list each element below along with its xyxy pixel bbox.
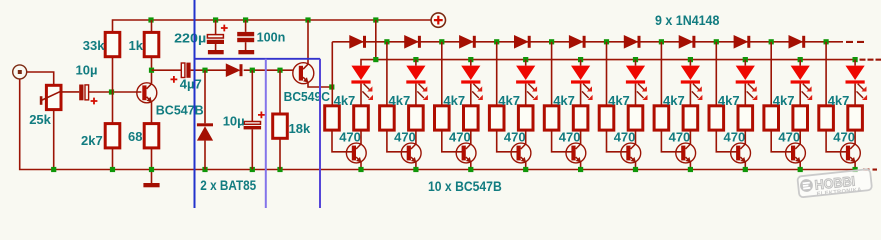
resistor R5 18k — [273, 70, 288, 169]
ground junction x=252.3 — [250, 167, 255, 172]
junction led bus cell 6 — [633, 57, 638, 62]
resistor 470 cell 6 — [628, 106, 643, 130]
wire 470 to collector cell 6 — [635, 130, 637, 144]
transistor cell 8 BC547B — [731, 143, 751, 163]
wire LED to 470 cell 5 — [580, 84, 582, 106]
diode D9 1N4148 — [679, 36, 692, 48]
svg-text:4k7: 4k7 — [498, 93, 520, 108]
svg-text:470: 470 — [724, 129, 746, 144]
wire 470 to collector cell 5 — [580, 130, 582, 144]
wire supply to led bus — [375, 20, 377, 60]
svg-text:4k7: 4k7 — [828, 93, 850, 108]
resistor 4k7 cell 9 — [764, 106, 779, 130]
wire led bus down cell 8 — [744, 60, 746, 66]
svg-text:25k: 25k — [29, 112, 51, 127]
wire led bus down cell 2 — [415, 60, 417, 66]
selection line C — [319, 59, 321, 208]
svg-text:4k7: 4k7 — [443, 93, 465, 108]
wire emitter to ground cell 9 — [799, 162, 801, 170]
junction diode bus node 2 — [384, 39, 389, 44]
wire led bus down cell 10 — [854, 60, 856, 66]
node base Q1 junction — [109, 89, 114, 94]
plus sign C5 — [258, 112, 265, 119]
potentiometer P1 25k — [40, 85, 62, 109]
wire 4k7 to base cell 1 — [332, 130, 354, 152]
ground junction x=205 — [202, 167, 207, 172]
svg-text:1k: 1k — [129, 38, 144, 53]
transistor Q2 BC549C — [293, 63, 314, 84]
wire node 6 down to 4k7 — [606, 42, 608, 106]
ground junction x=280 — [277, 167, 282, 172]
resistor R3 2k7 — [105, 124, 120, 148]
junction led bus cell 3 — [468, 57, 473, 62]
diode bus dashes — [846, 41, 853, 43]
transistor cell 5 BC547B — [566, 143, 586, 163]
plus sign C2 — [221, 25, 228, 32]
wire led bus down cell 4 — [525, 60, 527, 66]
wire LED to 470 cell 1 — [360, 84, 362, 106]
watermark logo — [797, 169, 872, 200]
ground junction x=151.5 — [149, 167, 154, 172]
svg-text:2 x BAT85: 2 x BAT85 — [200, 177, 256, 193]
wire 4k7 to base cell 7 — [661, 130, 683, 152]
LED cell 5 — [571, 66, 593, 100]
svg-text:470: 470 — [669, 129, 691, 144]
wire 1k to collector node — [151, 58, 153, 84]
svg-text:4k7: 4k7 — [389, 93, 411, 108]
wire pot bottom to ground rail — [53, 110, 55, 170]
battery plus terminal — [431, 13, 445, 27]
transistor cell 2 BC547B — [401, 143, 421, 163]
junction ground cell 6 — [633, 167, 638, 172]
ground symbol GND1 — [143, 170, 159, 188]
resistor 4k7 cell 10 — [819, 106, 834, 130]
ground rail — [54, 169, 855, 171]
svg-text:10 x BC547B: 10 x BC547B — [428, 178, 502, 194]
capacitor C3 100n — [237, 17, 254, 50]
LED cell 6 — [626, 66, 648, 100]
junction ground cell 4 — [523, 167, 528, 172]
wire emitter to ground cell 8 — [744, 162, 746, 170]
junction ground cell 3 — [468, 167, 473, 172]
resistor 4k7 cell 6 — [599, 106, 614, 130]
junction collector node — [149, 68, 154, 73]
resistor 470 cell 2 — [409, 106, 424, 130]
junction emitter node — [329, 84, 334, 89]
wire LED to 470 cell 9 — [799, 84, 801, 106]
wire Q1 emitter to 68 — [151, 102, 153, 124]
svg-text:10µ: 10µ — [76, 63, 98, 78]
wire emitter to ground cell 7 — [689, 162, 691, 170]
junction ground cell 8 — [743, 167, 748, 172]
diode D8 1N4148 — [624, 36, 637, 48]
wire led bus down cell 3 — [470, 60, 472, 66]
diode D1 BAT85 shunt — [197, 70, 213, 169]
ground junction x=53.7 — [51, 167, 56, 172]
wire node 9 down to 4k7 — [770, 42, 772, 106]
svg-text:220µ: 220µ — [174, 31, 206, 45]
svg-text:4k7: 4k7 — [334, 93, 356, 108]
resistor 470 cell 1 — [354, 106, 369, 130]
wire emitter to ground cell 3 — [470, 162, 472, 170]
wire 470 to collector cell 3 — [470, 130, 472, 144]
resistor 470 cell 4 — [518, 106, 533, 130]
diode D2 BAT85 series — [226, 64, 293, 76]
wire led bus down cell 5 — [580, 60, 582, 66]
wire 470 to collector cell 10 — [854, 130, 856, 144]
wire 470 to collector cell 7 — [689, 130, 691, 144]
svg-text:470: 470 — [833, 129, 855, 144]
svg-text:4k7: 4k7 — [608, 93, 630, 108]
junction ground cell 9 — [798, 167, 803, 172]
svg-text:470: 470 — [778, 129, 800, 144]
LED cell 2 — [406, 66, 428, 100]
capacitor C2 220u — [207, 17, 224, 50]
svg-text:470: 470 — [339, 129, 361, 144]
wire 4k7 to base cell 5 — [552, 130, 574, 152]
wire led bus down cell 9 — [799, 60, 801, 66]
resistor 4k7 cell 2 — [380, 106, 395, 130]
junction diode bus node 8 — [714, 39, 719, 44]
LED cell 1 — [351, 66, 373, 100]
diode D6 1N4148 — [515, 36, 528, 48]
wire emitter to ground cell 10 — [854, 162, 856, 170]
junction ground cell 5 — [578, 167, 583, 172]
wire LED to 470 cell 4 — [525, 84, 527, 106]
junction led bus cell 10 — [853, 57, 858, 62]
svg-text:18k: 18k — [289, 121, 311, 136]
resistor 470 cell 8 — [738, 106, 753, 130]
wire emitter to ground cell 6 — [635, 162, 637, 170]
resistor 470 cell 5 — [573, 106, 588, 130]
wire 33k bottom to 2k7 top — [112, 58, 114, 124]
transistor Q1 BC547B — [137, 83, 157, 103]
transistor cell 7 BC547B — [676, 143, 696, 163]
LED cell 10 — [846, 66, 868, 100]
diode D5 1N4148 — [460, 36, 473, 48]
junction diode bus node 6 — [604, 39, 609, 44]
diode D3 1N4148 — [350, 36, 363, 48]
LED cell 7 — [681, 66, 703, 100]
led bus dashes — [860, 59, 866, 61]
svg-text:470: 470 — [449, 129, 471, 144]
resistor 470 cell 3 — [464, 106, 479, 130]
wire 4k7 to base cell 3 — [442, 130, 464, 152]
svg-text:470: 470 — [559, 129, 581, 144]
wire emitter to ground cell 1 — [360, 162, 362, 170]
wire 4k7 to base cell 10 — [826, 130, 848, 152]
wire pot wiper to C1 — [62, 91, 80, 93]
junction led bus cell 2 — [413, 57, 418, 62]
wire node 4 down to 4k7 — [496, 42, 498, 106]
transistor cell 6 BC547B — [621, 143, 641, 163]
wire led bus down cell 6 — [635, 60, 637, 66]
wire 4k7 to base cell 2 — [387, 130, 409, 152]
junction diode bus node 5 — [549, 39, 554, 44]
transistor cell 3 BC547B — [456, 143, 476, 163]
junction ground cell 10 — [853, 167, 858, 172]
resistor 4k7 cell 4 — [489, 106, 504, 130]
diode bus — [331, 42, 333, 106]
svg-text:BC549C: BC549C — [284, 89, 330, 103]
wire emitter to ground cell 2 — [415, 162, 417, 170]
wire 470 to collector cell 2 — [415, 130, 417, 144]
wire jack to pot top — [27, 72, 54, 85]
svg-text:9 x 1N4148: 9 x 1N4148 — [655, 12, 719, 28]
selection line A — [194, 0, 196, 208]
diode D4 1N4148 — [405, 36, 418, 48]
svg-text:100n: 100n — [257, 29, 286, 44]
svg-text:33k: 33k — [83, 38, 105, 53]
wire emitter to ground cell 5 — [580, 162, 582, 170]
wire LED to 470 cell 8 — [744, 84, 746, 106]
ground symbol C2 — [208, 50, 224, 54]
transistor cell 10 BC547B — [841, 143, 861, 163]
ground rail dashes — [863, 169, 870, 171]
wire 4k7 to base cell 9 — [771, 130, 793, 152]
wire 2k7 to ground — [112, 148, 114, 170]
wire C4 to D1 node — [191, 69, 227, 71]
svg-text:4µ7: 4µ7 — [180, 77, 202, 92]
svg-text:4k7: 4k7 — [553, 93, 575, 108]
capacitor C1 10u — [79, 85, 88, 101]
wire 470 to collector cell 8 — [744, 130, 746, 144]
plus sign C1 — [91, 98, 98, 105]
wire node 3 down to 4k7 — [441, 42, 443, 106]
LED cell 9 — [791, 66, 813, 100]
svg-text:2k7: 2k7 — [81, 133, 103, 148]
wire node 2 down to 4k7 — [386, 42, 388, 106]
capacitor C5 10u — [244, 70, 262, 169]
wire emitter to ground cell 4 — [525, 162, 527, 170]
wire Q2 emitter to ladder — [308, 83, 332, 88]
junction diode bus node 4 — [494, 39, 499, 44]
resistor 4k7 cell 5 — [544, 106, 559, 130]
svg-text:470: 470 — [614, 129, 636, 144]
svg-text:4k7: 4k7 — [663, 93, 685, 108]
wire node 5 down to 4k7 — [551, 42, 553, 106]
wire 4k7 to base cell 8 — [716, 130, 738, 152]
top supply rail — [113, 20, 431, 32]
junction ground cell 7 — [688, 167, 693, 172]
wire LED to 470 cell 10 — [854, 84, 856, 106]
junction led bus cell 4 — [523, 57, 528, 62]
junction ground cell 2 — [413, 167, 418, 172]
wire node 8 down to 4k7 — [715, 42, 717, 106]
diode D11 1N4148 — [789, 36, 802, 48]
selection box top edge — [195, 58, 321, 60]
selection line B — [265, 59, 267, 208]
svg-text:68: 68 — [128, 129, 142, 144]
resistor 4k7 cell 8 — [709, 106, 724, 130]
junction diode bus node 7 — [659, 39, 664, 44]
wire 68 to ground — [151, 148, 153, 170]
capacitor C4 4u7 — [181, 63, 190, 78]
transistor cell 4 BC547B — [511, 143, 531, 163]
junction led bus cell 7 — [688, 57, 693, 62]
transistor cell 9 BC547B — [786, 143, 806, 163]
wire LED to 470 cell 3 — [470, 84, 472, 106]
junction supply drop top — [373, 17, 378, 22]
svg-text:4k7: 4k7 — [718, 93, 740, 108]
wire LED to 470 cell 7 — [689, 84, 691, 106]
junction 18k node — [277, 68, 282, 73]
wire LED to 470 cell 2 — [415, 84, 417, 106]
svg-text:4k7: 4k7 — [773, 93, 795, 108]
diode D7 1N4148 — [569, 36, 582, 48]
junction led bus cell 5 — [578, 57, 583, 62]
LED cell 3 — [461, 66, 483, 100]
junction C5 node — [250, 68, 255, 73]
resistor 4k7 cell 7 — [654, 106, 669, 130]
wire jack ground down — [20, 79, 54, 170]
wire Q2 collector — [307, 20, 309, 64]
resistor 4k7 cell 3 — [435, 106, 450, 130]
junction diode bus node 10 — [824, 39, 829, 44]
wire node 7 down to 4k7 — [660, 42, 662, 106]
diode D10 1N4148 — [734, 36, 747, 48]
junction diode bus node 9 — [769, 39, 774, 44]
wire C1 to base node — [89, 91, 141, 93]
resistor 4k7 cell 1 — [325, 106, 340, 130]
resistor R2 1k — [144, 32, 159, 56]
wire 470 to collector cell 9 — [799, 130, 801, 144]
junction Q2 collector top — [305, 17, 310, 22]
wire led bus down cell 7 — [689, 60, 691, 66]
resistor 470 cell 7 — [683, 106, 698, 130]
resistor 470 cell 9 — [793, 106, 808, 130]
junction ground cell 1 — [358, 167, 363, 172]
wire LED to 470 cell 6 — [635, 84, 637, 106]
resistor 470 cell 10 — [848, 106, 863, 130]
plus sign C4 — [171, 76, 178, 83]
wire 470 to collector cell 4 — [525, 130, 527, 144]
wire 470 to collector cell 1 — [360, 130, 362, 144]
junction D1 node — [202, 68, 207, 73]
svg-text:470: 470 — [394, 129, 416, 144]
transistor cell 1 BC547B — [346, 143, 366, 163]
junction led bus supply — [373, 57, 378, 62]
resistor R4 68 — [144, 124, 159, 148]
input jack J1 — [13, 65, 27, 79]
ground symbol C3 — [238, 50, 254, 54]
junction led bus cell 8 — [743, 57, 748, 62]
ground junction x=112.5 — [110, 167, 115, 172]
wire 4k7 to base cell 6 — [607, 130, 629, 152]
wire 4k7 to base cell 4 — [497, 130, 519, 152]
svg-text:BC547B: BC547B — [156, 102, 204, 117]
led bus — [361, 60, 855, 66]
wire node 10 down to 4k7 — [825, 42, 827, 106]
junction 1k top — [148, 17, 153, 22]
LED cell 4 — [516, 66, 538, 100]
wire collector node to C4 — [152, 69, 182, 71]
junction led bus cell 9 — [798, 57, 803, 62]
svg-text:10µ: 10µ — [223, 113, 245, 128]
junction diode bus node 3 — [439, 39, 444, 44]
LED cell 8 — [736, 66, 758, 100]
resistor R1 33k — [105, 32, 120, 56]
svg-text:470: 470 — [504, 129, 526, 144]
